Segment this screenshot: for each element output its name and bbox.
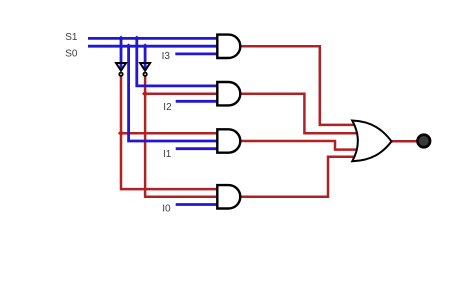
junction on S0 at inverter U2: [142, 43, 148, 49]
wire I3: [175, 53, 217, 56]
svg-text:S0: S0: [65, 49, 78, 60]
junction on S0 at pass-through: [126, 43, 132, 49]
inverter U1 (S1'): [116, 63, 126, 76]
wire S1' branch to gate A3: [121, 132, 218, 135]
junction on S0': [142, 91, 148, 97]
wire S1 horizontal: [88, 37, 218, 40]
wire S1' from inverter U1 to gate A4: [121, 76, 218, 189]
wire OR output: [391, 140, 417, 143]
output node: [418, 135, 431, 148]
wire S0' branch to gate A2: [145, 92, 217, 95]
junction on S1 at pass-through: [134, 36, 140, 42]
wire S0 pass-through to gate A3: [129, 46, 218, 141]
OR gate U3: [352, 121, 391, 162]
svg-text:S1: S1: [65, 32, 78, 43]
wire I2: [176, 100, 218, 103]
wire gate A3 output to OR pin3: [240, 141, 357, 150]
svg-text:I1: I1: [163, 149, 172, 160]
AND gate A4 (I0): [217, 185, 240, 208]
AND gate A2 (I2): [217, 82, 240, 105]
wire I0: [176, 203, 218, 206]
wire S0 drop to inverter U2: [144, 46, 147, 69]
wire S1 drop to inverter U1: [120, 38, 123, 69]
svg-text:I0: I0: [162, 204, 171, 215]
svg-text:I3: I3: [162, 51, 171, 62]
junction on S1 at inverter U1: [118, 36, 124, 42]
wire gate A1 output to OR pin1: [240, 46, 356, 125]
AND gate A1 (I3): [217, 35, 240, 58]
wire gate A4 output to OR pin4: [240, 157, 356, 197]
wire I1: [176, 147, 218, 150]
junction on S1': [118, 130, 124, 136]
AND gate A3 (I1): [217, 129, 240, 152]
wire S0 horizontal: [88, 45, 218, 48]
wire gate A2 output to OR pin2: [240, 94, 357, 134]
wire S0' from inverter U2 to gate A4: [145, 76, 217, 196]
svg-text:I2: I2: [163, 102, 172, 113]
wire S1 pass-through to gate A2: [137, 38, 218, 86]
inverter U2 (S0'): [140, 63, 150, 76]
